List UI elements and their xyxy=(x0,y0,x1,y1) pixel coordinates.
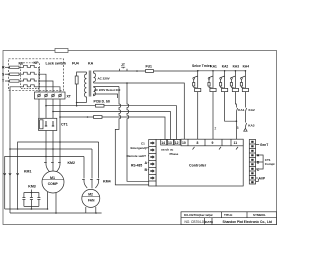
svg-text:2: 2 xyxy=(215,127,217,131)
main drop wire N3 xyxy=(52,99,54,162)
strip terminal 3 xyxy=(52,94,55,97)
drawing frame border xyxy=(3,51,277,225)
svg-text:S: S xyxy=(2,72,5,76)
CT1 box xyxy=(39,118,57,130)
title block xyxy=(181,212,277,225)
CT1 inner marks xyxy=(45,121,54,126)
terminal 9 xyxy=(222,139,231,146)
svg-text:KA1: KA1 xyxy=(238,108,244,112)
svg-text:C: C xyxy=(257,168,260,172)
svg-text:KA4: KA4 xyxy=(243,64,250,68)
node bus-5 xyxy=(245,70,247,72)
svg-text:NO. CB704-03: NO. CB704-03 xyxy=(185,220,206,224)
svg-text:ua ub uc: ua ub uc xyxy=(161,148,174,152)
svg-text:KM3: KM3 xyxy=(28,185,35,189)
tap wire C xyxy=(60,117,165,140)
top terminal row box xyxy=(181,139,243,146)
strip terminal 4 xyxy=(59,94,62,97)
fuse FU row1 xyxy=(10,66,19,68)
secondary wire 110V top xyxy=(94,86,120,88)
wire aux left drop xyxy=(10,87,15,149)
fuse FU6 on wire A xyxy=(96,104,105,107)
relay branch 2 xyxy=(209,71,213,89)
slash marks under row xyxy=(193,147,239,150)
motor M2 xyxy=(82,189,100,207)
fuse FU7 on wire C xyxy=(94,116,103,119)
svg-text:Phase: Phase xyxy=(170,152,179,156)
motor M2 leads xyxy=(86,207,96,213)
transformer KA secondary winding top xyxy=(94,71,96,83)
svg-text:FU: FU xyxy=(19,62,24,66)
svg-text:AirP: AirP xyxy=(259,177,266,181)
fuse FU4 drop xyxy=(77,72,87,106)
svg-text:KM4: KM4 xyxy=(103,180,111,184)
svg-text:Shandon Plat Electronic Co., L: Shandon Plat Electronic Co., Ltd xyxy=(223,220,272,224)
svg-text:FU1: FU1 xyxy=(146,65,153,69)
relay branch 4 xyxy=(231,71,235,89)
svg-text:Compt: Compt xyxy=(265,162,275,166)
motor M1 xyxy=(42,171,64,193)
fuse FU row2 xyxy=(10,73,19,75)
svg-text:14: 14 xyxy=(161,141,165,145)
svg-text:B: B xyxy=(145,168,148,172)
title block col divider 1 xyxy=(205,212,248,225)
controller left terminal strip xyxy=(149,140,156,187)
node bus-3 xyxy=(224,70,226,72)
svg-text:FU4: FU4 xyxy=(72,62,79,66)
left tap wire 2 xyxy=(10,149,92,171)
svg-text:KA2: KA2 xyxy=(249,108,255,112)
svg-text:FAN: FAN xyxy=(88,198,95,202)
main drop wire N1 xyxy=(38,99,40,118)
svg-text:KX-CB70A(ber tal)al: KX-CB70A(ber tal)al xyxy=(184,213,213,217)
right strip cells xyxy=(249,144,255,180)
contactor KM2 contacts xyxy=(44,162,61,172)
terminal 8 xyxy=(204,139,206,146)
right strip cell marks xyxy=(251,141,253,183)
frame tab box xyxy=(55,49,68,53)
svg-text:KA: KA xyxy=(88,62,94,66)
strip terminal 1 xyxy=(38,94,41,97)
branch5 drop via contact KA2 xyxy=(245,92,246,127)
tap wire B xyxy=(53,112,170,140)
svg-text:9: 9 xyxy=(212,141,214,145)
svg-text:B: B xyxy=(257,161,260,165)
svg-text:XT: XT xyxy=(67,95,72,99)
svg-text:Controller: Controller xyxy=(189,164,207,168)
transformer KA primary bottom wire xyxy=(77,102,87,104)
relay branch 1 xyxy=(194,71,198,89)
breaker KF contacts row2 xyxy=(21,72,37,74)
svg-text:TITLE: TITLE xyxy=(224,213,232,217)
wire row2 to strip xyxy=(38,74,46,92)
terminal 12 xyxy=(174,140,180,146)
wire to relay bus xyxy=(154,70,199,71)
svg-text:KM2: KM2 xyxy=(68,161,75,165)
svg-text:KA2: KA2 xyxy=(222,64,229,68)
node bus-1 xyxy=(197,70,199,72)
node bus-2 xyxy=(212,70,214,72)
left strip cells xyxy=(149,147,156,182)
svg-text:Selce Tmier: Selce Tmier xyxy=(192,64,212,68)
svg-text:A: A xyxy=(145,161,148,165)
fuse FU4 xyxy=(75,76,78,84)
svg-text:11: 11 xyxy=(234,141,238,145)
crossover wire V2 xyxy=(127,83,149,181)
svg-text:AC 220V Remot:110: AC 220V Remot:110 xyxy=(94,88,121,92)
wire phase T xyxy=(5,80,21,82)
bottom bus 1 xyxy=(5,208,48,210)
relay coil 4 xyxy=(232,88,238,91)
right bottom hook wire xyxy=(256,179,259,182)
secondary wire 110V bottom xyxy=(94,94,118,98)
transformer KA secondary winding bottom xyxy=(94,87,96,96)
capacitor bank KM3 xyxy=(22,190,40,210)
secondary wire 220V bottom xyxy=(94,83,185,139)
terminal 13 xyxy=(167,140,173,146)
branch1 drop to terminal 8 xyxy=(197,92,199,140)
svg-text:KA3: KA3 xyxy=(233,64,240,68)
signal wires to strip xyxy=(144,148,149,170)
svg-text:10: 10 xyxy=(182,141,186,145)
relay coil 1 xyxy=(195,88,201,91)
svg-text:CT1: CT1 xyxy=(61,123,68,127)
title block row divider xyxy=(181,217,277,219)
svg-text:KM1: KM1 xyxy=(24,169,31,173)
left strip arrows xyxy=(150,141,154,179)
lock switch dashed enclosure QF xyxy=(9,59,64,91)
svg-text:AC 220V: AC 220V xyxy=(98,76,110,80)
wire phase R xyxy=(5,66,21,68)
branch3 drop with jog to 236.4 xyxy=(225,92,237,122)
secondary wire 220V top xyxy=(94,70,120,72)
breaker inner dashed box xyxy=(21,63,40,89)
svg-text:GenT: GenT xyxy=(260,143,268,147)
relay bus xyxy=(198,70,245,72)
svg-text:PCB D. b6: PCB D. b6 xyxy=(94,99,111,103)
contactor KM1 contacts xyxy=(3,171,18,213)
svg-text:C1: C1 xyxy=(141,142,145,146)
svg-text:13: 13 xyxy=(168,141,172,145)
svg-text:SYMBOL: SYMBOL xyxy=(253,213,266,217)
breaker KF contacts row1 xyxy=(21,65,37,67)
svg-text:RS-485: RS-485 xyxy=(131,164,142,168)
terminal strip XT xyxy=(35,92,66,99)
svg-text:M1: M1 xyxy=(50,176,55,180)
relay branch 3 xyxy=(221,71,225,89)
left tap wire 3 xyxy=(5,157,84,172)
label A right xyxy=(256,155,264,169)
terminal 15 xyxy=(187,139,189,146)
controller main box U1 xyxy=(156,140,243,187)
crossover wire V1 xyxy=(115,87,153,185)
wire row1 to strip xyxy=(38,67,39,92)
svg-text:DATE: DATE xyxy=(205,220,213,224)
svg-text:Remote switT: Remote switT xyxy=(127,154,147,158)
fuse FU5 xyxy=(146,70,154,73)
tap wire A xyxy=(46,106,177,140)
relay coil 5 xyxy=(242,88,248,91)
branch2 drop to terminal 9 xyxy=(212,92,214,140)
wire row4 to strip xyxy=(36,87,61,92)
transformer KA core xyxy=(89,71,91,97)
relay branch 5 xyxy=(241,71,245,89)
label Gen T xyxy=(256,144,260,146)
svg-text:8: 8 xyxy=(197,141,199,145)
breaker KF contacts row3 xyxy=(21,79,37,81)
ground triangle xyxy=(244,127,247,132)
wire row3 to strip xyxy=(38,81,53,92)
node bus-4 xyxy=(235,70,237,72)
bottom bus 2 xyxy=(10,212,102,214)
svg-text:JT: JT xyxy=(121,63,126,67)
controller right terminal strip xyxy=(249,140,255,185)
svg-text:Lock switch: Lock switch xyxy=(46,62,67,66)
relay coil 2 xyxy=(210,88,216,91)
svg-text:5: 5 xyxy=(237,126,239,130)
transformer KA primary winding xyxy=(85,72,87,103)
fuse FU row3 xyxy=(10,80,19,82)
svg-text:COMP: COMP xyxy=(48,182,59,186)
wire phase S xyxy=(5,73,21,75)
terminal 14 xyxy=(161,140,167,146)
main drop wire N2 xyxy=(45,99,47,162)
pushbutton JT xyxy=(120,67,128,71)
svg-text:12: 12 xyxy=(175,141,179,145)
breaker KF aux contacts row4 xyxy=(15,85,37,87)
svg-text:KA1: KA1 xyxy=(210,64,217,68)
contactor KM4 contacts xyxy=(82,142,99,188)
relay coil 3 xyxy=(222,88,228,91)
label AirP xyxy=(256,177,258,179)
svg-text:M2: M2 xyxy=(88,193,93,197)
motor M1 leads xyxy=(48,192,57,213)
left tap wire 1 xyxy=(18,142,99,171)
strip terminal 2 xyxy=(45,94,48,97)
main drop wire N4 xyxy=(59,99,61,162)
svg-text:R: R xyxy=(2,65,5,69)
branch4 drop via contact KA1 xyxy=(235,92,237,140)
svg-text:T: T xyxy=(2,79,5,83)
svg-text:KA3: KA3 xyxy=(248,123,254,127)
